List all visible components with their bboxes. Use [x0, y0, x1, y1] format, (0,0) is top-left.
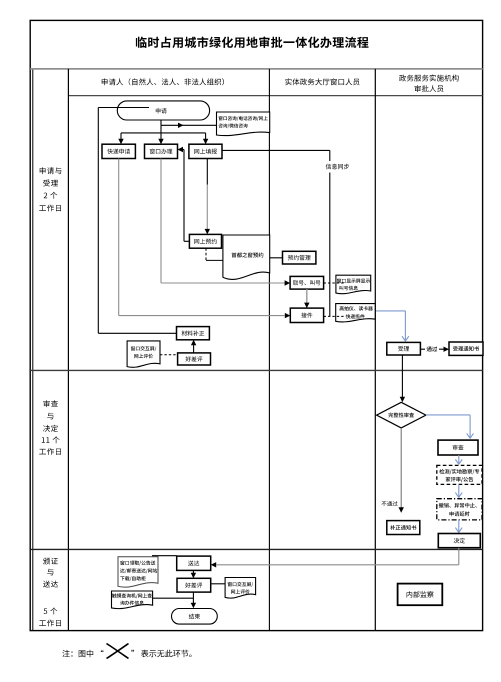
document 窗口显示屏显示叫号信息 [336, 275, 371, 294]
arrow 受理 to 完整性审查 [400, 355, 405, 402]
arrow 送达 to 好差评 [191, 570, 196, 578]
wire 决定 to 送达 [211, 548, 459, 568]
column divider 2 [374, 69, 376, 631]
arrow into 窗口办理 [158, 133, 163, 144]
arrow 网上填报 to 网上预约 [205, 159, 210, 235]
box 决定 [438, 534, 480, 548]
box 快递申请 [102, 144, 135, 158]
box 窗口办理 [145, 144, 178, 158]
box 取号、叫号 [290, 276, 324, 289]
diamond 完整性审查 [377, 402, 426, 428]
blue wire 完整性审查 to 审查 [426, 415, 474, 438]
box 送达 [177, 556, 211, 570]
wire 信息同步 sync line [222, 150, 330, 316]
section divider 1 [30, 369, 482, 371]
column header 实体政务大厅窗口人员 [285, 78, 359, 85]
box 网上预约 [189, 234, 221, 248]
wire 材料补正 to 申请 feedback [98, 108, 176, 334]
document 窗口咨询/电话咨询/网上咨询/微信咨询 [217, 112, 270, 136]
blue arrow 撤销 to 决定 [455, 520, 462, 533]
label 信息同步 [326, 164, 349, 170]
blue arrow 审查 to 检测 [455, 455, 462, 464]
wire 领取doc to 送达 [152, 555, 177, 557]
document 窗口领取/公告送达/邮寄送达/网站下载/自助柜 [118, 557, 158, 587]
stage label 审查与决定 11个工作日 [39, 400, 61, 455]
column divider 1 [268, 69, 270, 631]
wire 查询doc to 结束 line [153, 597, 194, 599]
column header 政务服务实施机构 [399, 75, 459, 82]
arrow into 网上填报 [203, 133, 208, 144]
footer note suffix [131, 650, 191, 657]
arrowhead into 受理通知书 [444, 347, 450, 352]
stage column border [67, 69, 69, 631]
dashed wire 网上预约 to 首都之窗预约 doc [206, 248, 224, 260]
footer X symbol [107, 644, 129, 659]
wire 首都之窗预约 to 预约管理 [270, 257, 289, 259]
arrow 好差评 to 材料补正 [191, 340, 196, 353]
dashed wire 评价doc to 好差评 [160, 354, 178, 356]
wire 窗口办理 to 取号叫号 [161, 159, 290, 286]
wire 完整性审查 不通过 branch [399, 428, 404, 513]
box 网上填报 [189, 144, 222, 158]
arrow 取号 to 接件 [304, 289, 309, 308]
header divider line [68, 95, 482, 97]
document 首都之窗预约 [223, 235, 270, 279]
blue arrow 检测 to 撤销 [455, 484, 462, 497]
dashdot box 撤销、异常中止、申请延时 [437, 499, 482, 520]
dashed wire 取号 to 叫号信息 doc [324, 282, 345, 284]
wire 好差评 to 评价doc [211, 583, 225, 585]
wire 受理 to 受理通知书 [420, 348, 443, 350]
column header 审批人员 [415, 85, 444, 92]
document 触摸查询机/网上查询办件信息 [112, 591, 153, 609]
box 审查 [438, 440, 478, 455]
box 好差评 section3 [177, 578, 211, 592]
wire 快递申请 to 接件 [119, 159, 291, 319]
inner left border line [32, 69, 34, 631]
column header 申请人 [102, 78, 224, 85]
box 接件 [290, 308, 323, 322]
title divider line [30, 68, 482, 70]
box 预约管理 [283, 251, 316, 264]
arrow 好差评 to 结束 [191, 592, 196, 608]
label 通过 [425, 344, 439, 354]
document 窗口交互屏/网上评价 section3 [225, 578, 256, 599]
box 材料补正 [177, 327, 210, 340]
box 受理通知书 [449, 342, 483, 355]
terminator 结束 [172, 609, 218, 625]
dashed box 检测/实地勘察/专家评审/公告 [437, 465, 482, 484]
box 补正通知书 [387, 521, 420, 535]
terminator 申请 [117, 101, 209, 120]
document 高拍仪、读卡器快递揽件 [336, 304, 376, 322]
dashed wire 接件 to 设备 doc [324, 315, 344, 317]
footer note prefix [62, 650, 103, 657]
arrow into 快递申请 [118, 133, 123, 144]
section divider 2 [30, 548, 482, 550]
title [136, 37, 369, 49]
wire 网上预约 to 窗口办理 feedback [178, 147, 190, 242]
wire 申请 branch [121, 125, 206, 133]
box 受理 [387, 342, 421, 355]
box 内部监察 [398, 584, 443, 606]
blue wire 接件设备 to 受理 [376, 311, 409, 341]
wire 申请 to 咨询 doc [161, 120, 217, 128]
document 窗口交互屏/网上评价 section1 [127, 341, 160, 367]
stage label 申请与受理 2个工作日 [39, 167, 61, 211]
stage label 颁证与送达 5个工作日 [39, 558, 61, 627]
label 不通过 [382, 501, 398, 506]
box 好差评 section1 [178, 353, 211, 365]
